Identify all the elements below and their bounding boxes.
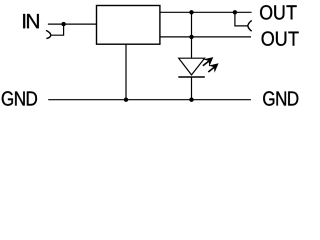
label GND right xyxy=(263,91,298,105)
label OUT top xyxy=(260,5,297,19)
junction dot OUT top at connector xyxy=(233,10,237,14)
connector pin hook J2 pin2 xyxy=(248,20,252,31)
wire GND bus xyxy=(48,99,251,101)
wire OUT second xyxy=(160,36,251,38)
wire IN to regulator xyxy=(48,23,97,25)
wire OUT top xyxy=(160,11,252,13)
junction dot OUT second at LED xyxy=(189,35,193,39)
junction dot OUT top at LED xyxy=(189,10,193,14)
junction dot GND at regulator xyxy=(124,98,128,102)
junction dot GND at LED xyxy=(189,98,193,102)
wire OUT pin2 branch xyxy=(235,12,248,26)
wire IN pin2 branch xyxy=(51,24,64,35)
wire LED cathode to GND xyxy=(191,77,193,100)
label IN xyxy=(23,14,39,28)
wire LED anode vertical xyxy=(191,12,193,58)
label GND left xyxy=(2,91,37,105)
connector pin hook J1 pin2 xyxy=(46,30,51,38)
LED light arrow 2 xyxy=(208,63,218,73)
LED D1 triangle xyxy=(179,58,205,75)
voltage regulator box U1 xyxy=(97,6,160,45)
LED cathode bar xyxy=(178,76,205,78)
junction dot IN xyxy=(61,22,65,26)
label OUT bottom xyxy=(262,31,299,45)
wire regulator GND pin xyxy=(125,44,127,99)
LED light arrow 1 xyxy=(203,57,213,67)
